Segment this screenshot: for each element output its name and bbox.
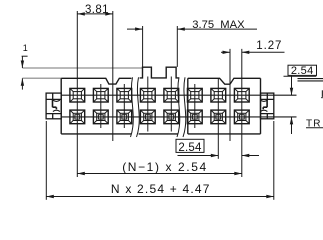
pin contact col 4 row 2 — [140, 110, 155, 124]
notch 2 extension line — [229, 49, 231, 141]
left mounting tab — [46, 93, 61, 119]
gray datum line lower — [22, 77, 61, 79]
break line 1 right S-curve — [137, 77, 140, 137]
pin contact col 1 row 2 — [70, 110, 85, 124]
right mounting tab — [260, 93, 273, 119]
pin contact col 5 row 1 — [164, 88, 179, 102]
pin contact col 8 row 2 — [234, 110, 249, 124]
pin contact col 8 row 1 — [234, 88, 249, 102]
truncated glyph right edge — [322, 90, 323, 97]
svg-text:1: 1 — [23, 43, 28, 53]
row 2 centerline — [61, 116, 296, 118]
svg-text:1.27: 1.27 — [256, 40, 282, 52]
svg-text:3.75 MAX: 3.75 MAX — [192, 19, 245, 31]
boxed dimension 2.54 bottom (pin pitch) — [176, 139, 259, 155]
dimension 1.27 — [221, 51, 285, 53]
pin contact col 2 row 1 — [93, 88, 108, 102]
connector body left section outline with polarization notch — [61, 78, 131, 134]
svg-text:N x 2.54 + 4.47: N x 2.54 + 4.47 — [111, 182, 211, 196]
pin contact col 3 row 1 — [117, 88, 132, 102]
svg-text:(N−1) x 2.54: (N−1) x 2.54 — [122, 160, 208, 174]
svg-text:2.54: 2.54 — [291, 65, 314, 77]
break line 1 left S-curve — [131, 77, 134, 137]
pin contact col 1 row 1 — [70, 88, 85, 102]
pin contact col 5 row 2 — [164, 110, 179, 124]
adjacent part edge lines top right — [298, 79, 323, 81]
pin contact col 4 row 1 — [140, 88, 155, 102]
boxed dimension 2.54 right (row pitch) — [284, 65, 317, 134]
gray datum line upper — [22, 67, 142, 69]
pin contact col 6 row 1 — [187, 88, 202, 102]
break line 2 right S-curve — [183, 77, 186, 137]
dimension 3.81 — [77, 13, 113, 15]
pin contacts grid — [70, 88, 249, 123]
notch 1 extension line — [112, 11, 114, 141]
dimension 3.75 MAX — [127, 26, 257, 67]
connector body right section outline with polarization notch — [188, 78, 261, 134]
column centerlines — [77, 11, 242, 177]
pin contact col 2 row 2 — [93, 110, 108, 124]
svg-text:2.54: 2.54 — [178, 142, 202, 154]
dimension 1 (left, datum offset) — [22, 56, 28, 89]
dimension N x 2.54 + 4.47 — [46, 121, 273, 200]
pin contact col 6 row 2 — [187, 110, 202, 124]
pin contact col 7 row 2 — [211, 110, 226, 124]
row 1 centerline — [61, 94, 296, 96]
middle section top profile with two polarization bumps — [139, 67, 179, 134]
svg-text:3.81: 3.81 — [85, 4, 109, 16]
pin contact col 3 row 2 — [117, 110, 132, 124]
dimension (N-1) x 2.54 — [77, 173, 242, 175]
pin contact col 7 row 1 — [211, 88, 226, 102]
break line 2 left S-curve — [177, 77, 180, 137]
